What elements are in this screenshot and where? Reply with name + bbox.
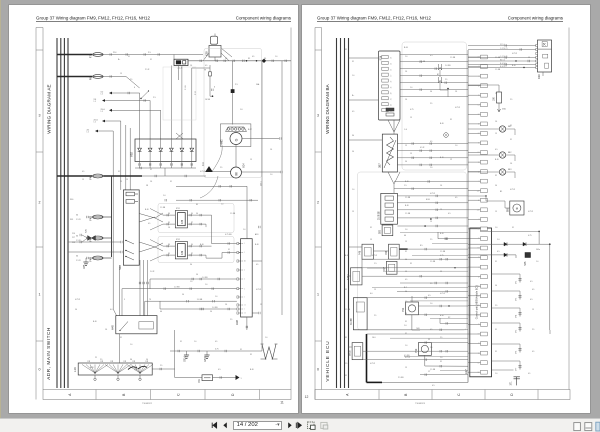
svg-text:1.0: 1.0 — [430, 347, 432, 349]
svg-text:54: 54 — [146, 359, 148, 361]
svg-text:F66: F66 — [88, 75, 92, 80]
sensor drops right column — [492, 273, 521, 275]
svg-text:F97: F97 — [383, 266, 386, 271]
svg-text:C4: C4 — [510, 163, 512, 165]
nav prev page button — [223, 422, 227, 428]
svg-text:R30: R30 — [537, 74, 541, 79]
left margin ruler — [35, 28, 37, 400]
svg-text:22: 22 — [391, 81, 393, 83]
feeder wire F66 — [57, 76, 92, 78]
switch contact mesh — [141, 92, 148, 99]
svg-text:F76: F76 — [88, 53, 92, 58]
svg-text:15: 15 — [405, 271, 407, 273]
indicator lamps — [499, 126, 505, 132]
solenoid Y62 — [406, 302, 419, 315]
svg-text:1.0: 1.0 — [270, 174, 272, 176]
svg-text:0.5: 0.5 — [256, 264, 258, 266]
svg-text:X1: X1 — [345, 49, 347, 51]
svg-text:19: 19 — [478, 143, 480, 145]
svg-text:54: 54 — [264, 58, 267, 60]
svg-text:30: 30 — [76, 236, 78, 238]
snapshot tool icon — [308, 422, 315, 429]
right margin line — [290, 28, 292, 390]
svg-text:31: 31 — [150, 59, 152, 61]
svg-text:54: 54 — [196, 213, 198, 215]
wire crossover above V92 — [176, 133, 183, 139]
svg-text:3: 3 — [317, 114, 319, 118]
svg-text:30: 30 — [76, 215, 78, 217]
svg-text:C4: C4 — [150, 181, 152, 183]
svg-text:0.5: 0.5 — [532, 351, 534, 353]
svg-text:54: 54 — [405, 291, 407, 293]
svg-text:C: C — [457, 393, 461, 396]
corners down into A45 — [121, 289, 123, 316]
svg-text:B-16: B-16 — [440, 157, 444, 159]
svg-text:2.5: 2.5 — [230, 319, 232, 321]
svg-text:D: D — [231, 393, 235, 396]
svg-text:25: 25 — [391, 86, 393, 88]
svg-text:1: 1 — [317, 293, 319, 297]
svg-text:B-34 0.5: B-34 0.5 — [500, 66, 506, 68]
svg-text:31: 31 — [118, 171, 120, 173]
svg-text:372: 372 — [516, 281, 518, 284]
svg-text:12: 12 — [478, 124, 480, 126]
nav first page button — [212, 423, 216, 428]
svg-text:Component wiring diagrams: Component wiring diagrams — [508, 16, 564, 21]
svg-text:30: 30 — [191, 244, 193, 246]
svg-text:1: 1 — [244, 297, 245, 299]
svg-text:2.5: 2.5 — [160, 365, 162, 367]
svg-text:3108/2B: 3108/2B — [378, 211, 380, 220]
svg-text:0.5: 0.5 — [430, 55, 433, 57]
relay F48 — [362, 244, 374, 259]
svg-text:1.5 SB: 1.5 SB — [405, 213, 411, 215]
svg-text:C7: C7 — [478, 133, 480, 135]
svg-text:2.5: 2.5 — [100, 359, 102, 361]
svg-text:2.5: 2.5 — [510, 99, 512, 101]
motor module 8B6 — [510, 201, 524, 215]
svg-text:53A: 53A — [502, 108, 506, 111]
svg-text:15: 15 — [495, 211, 497, 213]
box 5B5 — [382, 225, 393, 236]
svg-text:0.75 R: 0.75 R — [440, 293, 446, 295]
svg-text:545: 545 — [524, 261, 527, 266]
svg-text:AD1: AD1 — [255, 233, 259, 236]
svg-text:6.0: 6.0 — [110, 309, 113, 311]
svg-text:3B7: 3B7 — [378, 163, 382, 168]
svg-text:215 A: 215 A — [94, 119, 99, 122]
svg-text:WIRING DIAGRAM AE: WIRING DIAGRAM AE — [47, 84, 52, 134]
resistor 186 — [498, 85, 500, 92]
svg-text:1.0: 1.0 — [495, 227, 497, 229]
svg-text:373: 373 — [516, 298, 518, 301]
svg-text:31: 31 — [345, 289, 347, 291]
wire-end arrows mesh column — [109, 92, 112, 95]
svg-text:16: 16 — [391, 69, 393, 71]
svg-text:B4: B4 — [478, 105, 480, 107]
svg-text:Group 37 Wiring diagram FM9, F: Group 37 Wiring diagram FM9, FM12, FH12,… — [36, 16, 150, 21]
svg-text:B-16: B-16 — [440, 315, 444, 317]
svg-text:8B0B: 8B0B — [350, 350, 352, 356]
svg-text:19: 19 — [478, 286, 480, 288]
relay F97 — [386, 261, 397, 274]
svg-text:150: 150 — [101, 92, 104, 94]
wire bus to right margin — [188, 60, 291, 62]
svg-text:1.5: 1.5 — [94, 101, 96, 103]
svg-text:A2: A2 — [244, 260, 246, 263]
svg-text:12: 12 — [478, 343, 480, 345]
svg-text:2.5 R: 2.5 R — [145, 69, 150, 71]
svg-text:G81A: G81A — [183, 356, 186, 362]
relay F98 — [389, 244, 400, 259]
svg-text:B-34 0.5: B-34 0.5 — [500, 63, 506, 65]
svg-text:1.0: 1.0 — [352, 75, 354, 77]
svg-text:12: 12 — [478, 200, 480, 202]
svg-text:2-1-B: 2-1-B — [185, 85, 187, 90]
svg-text:Control unit, ABS/Vehicle ECU: Control unit, ABS/Vehicle ECU — [475, 285, 479, 320]
diode group 545 — [468, 243, 550, 245]
svg-text:31: 31 — [410, 263, 412, 265]
svg-text:2.5: 2.5 — [495, 305, 497, 307]
svg-text:0.75 R: 0.75 R — [510, 189, 516, 191]
svg-text:54: 54 — [405, 161, 407, 163]
svg-text:377: 377 — [516, 368, 518, 371]
diode assembly V92 — [135, 139, 196, 162]
svg-text:15: 15 — [260, 304, 262, 306]
svg-text:85: 85 — [168, 222, 170, 224]
svg-text:1.0: 1.0 — [194, 341, 196, 343]
svg-text:C7: C7 — [428, 371, 430, 373]
svg-text:0.75 SB: 0.75 SB — [225, 234, 232, 236]
svg-text:54: 54 — [182, 294, 184, 296]
ECU bus line — [467, 50, 469, 382]
svg-text:A12: A12 — [477, 209, 480, 212]
svg-text:1.0: 1.0 — [190, 281, 192, 283]
svg-text:0.75: 0.75 — [215, 349, 219, 351]
svg-text:B-16: B-16 — [440, 123, 444, 125]
svg-text:0.5: 0.5 — [495, 149, 498, 151]
right margin ruler — [314, 28, 316, 400]
svg-text:217: 217 — [72, 237, 75, 239]
svg-text:1.5: 1.5 — [101, 111, 103, 113]
svg-text:15: 15 — [495, 93, 497, 95]
svg-text:12: 12 — [478, 171, 480, 173]
svg-text:B-16: B-16 — [145, 209, 149, 211]
svg-text:3: 3 — [39, 114, 41, 118]
svg-text:6.0: 6.0 — [370, 293, 373, 295]
svg-text:31: 31 — [478, 353, 480, 355]
svg-text:K28: K28 — [205, 51, 209, 56]
svg-text:216: 216 — [87, 130, 90, 132]
svg-text:6: 6 — [134, 87, 135, 89]
svg-text:1: 1 — [241, 378, 242, 380]
drop to alternator — [232, 61, 234, 90]
svg-text:1.5: 1.5 — [374, 263, 377, 265]
long vertical wires — [261, 61, 263, 344]
svg-text:31: 31 — [250, 354, 252, 356]
svg-text:31: 31 — [478, 238, 480, 240]
svg-text:87: 87 — [191, 222, 193, 224]
svg-text:2.5: 2.5 — [130, 79, 132, 81]
svg-text:2.5: 2.5 — [374, 315, 376, 317]
svg-text:87: 87 — [191, 253, 193, 255]
svg-text:0.75 R: 0.75 R — [256, 289, 262, 291]
svg-text:54: 54 — [405, 259, 407, 261]
svg-text:2.5: 2.5 — [532, 329, 534, 331]
svg-text:0.5: 0.5 — [148, 223, 150, 225]
svg-text:2: 2 — [317, 201, 319, 205]
svg-text:C4: C4 — [190, 65, 192, 67]
svg-text:2.5: 2.5 — [430, 239, 432, 241]
svg-text:11: 11 — [280, 401, 284, 405]
svg-text:12: 12 — [244, 313, 246, 315]
svg-text:10: 10 — [391, 57, 393, 59]
svg-text:2.5: 2.5 — [345, 363, 347, 365]
svg-text:Y60: Y60 — [415, 348, 418, 353]
svg-text:1.0: 1.0 — [497, 239, 500, 241]
connector 371 — [514, 377, 520, 386]
S24 fan — [388, 120, 400, 132]
svg-text:0.75 R: 0.75 R — [512, 53, 518, 55]
svg-text:0.5: 0.5 — [455, 197, 457, 199]
svg-text:0.5: 0.5 — [430, 329, 432, 331]
extra wires lower right page — [400, 232, 468, 234]
svg-text:214: 214 — [113, 52, 117, 54]
control unit A17 — [470, 228, 492, 377]
svg-text:B-16: B-16 — [200, 244, 204, 246]
svg-text:D2: D2 — [478, 362, 480, 364]
svg-text:15: 15 — [410, 117, 412, 119]
svg-text:1.5 SB: 1.5 SB — [405, 197, 411, 199]
svg-text:1.5 SB: 1.5 SB — [495, 57, 501, 59]
svg-text:15: 15 — [405, 367, 407, 369]
svg-text:0.75: 0.75 — [440, 255, 444, 257]
svg-text:0.5 R: 0.5 R — [420, 147, 425, 149]
solenoid Y60 — [418, 343, 431, 356]
svg-text:1: 1 — [39, 293, 41, 297]
connector 3108B — [353, 298, 367, 330]
svg-text:8751: 8751 — [176, 208, 180, 210]
left page sheet — [36, 16, 292, 406]
svg-text:C7: C7 — [478, 315, 480, 317]
svg-text:1: 1 — [244, 309, 245, 311]
svg-text:1.0: 1.0 — [405, 56, 407, 58]
svg-text:1.0: 1.0 — [440, 357, 442, 359]
svg-text:M: M — [235, 173, 239, 176]
connector 3108/2B — [381, 193, 398, 224]
svg-text:1.5 SB: 1.5 SB — [160, 207, 166, 209]
svg-text:5: 5 — [124, 299, 125, 301]
svg-text:F91: F91 — [198, 378, 201, 383]
svg-text:1.5 SB: 1.5 SB — [430, 261, 436, 263]
lamp module L19 — [78, 363, 152, 375]
svg-text:31: 31 — [478, 162, 480, 164]
svg-text:1.0: 1.0 — [405, 345, 407, 347]
svg-text:1.0: 1.0 — [352, 189, 354, 191]
svg-text:54: 54 — [495, 185, 497, 187]
texture ticks left page — [200, 60, 202, 62]
svg-text:1.0: 1.0 — [205, 284, 207, 286]
svg-text:31: 31 — [150, 169, 152, 171]
svg-text:F42: F42 — [88, 216, 92, 221]
svg-text:1.5 SB: 1.5 SB — [430, 369, 436, 371]
svg-text:31: 31 — [180, 341, 182, 343]
svg-text:EG3: EG3 — [426, 199, 430, 201]
svg-text:1.5 SB: 1.5 SB — [345, 309, 351, 311]
svg-text:0.5: 0.5 — [215, 341, 217, 343]
harness bundle right page — [336, 38, 338, 388]
svg-text:C4: C4 — [405, 71, 407, 73]
svg-text:15: 15 — [528, 57, 530, 59]
fuse F47 — [88, 236, 103, 242]
svg-text:1.0: 1.0 — [536, 261, 538, 263]
svg-text:A38: A38 — [235, 320, 239, 325]
svg-text:15: 15 — [430, 221, 432, 223]
svg-text:1.0: 1.0 — [130, 344, 132, 346]
svg-text:0.75 R: 0.75 R — [75, 299, 81, 301]
svg-text:31: 31 — [510, 139, 512, 141]
svg-text:31: 31 — [370, 227, 372, 229]
svg-text:C-12 0.75: C-12 0.75 — [500, 48, 507, 50]
wires lower to bus — [438, 238, 468, 240]
svg-text:T3008923: T3008923 — [415, 403, 426, 405]
svg-text:B-16: B-16 — [405, 205, 409, 207]
svg-text:0.5: 0.5 — [528, 373, 530, 375]
svg-text:15: 15 — [250, 159, 252, 161]
control unit A45 — [116, 316, 157, 334]
svg-text:B+: B+ — [118, 59, 120, 61]
wires S24 to bus — [400, 54, 468, 56]
svg-text:2.5: 2.5 — [430, 283, 432, 285]
fuse F42 — [88, 215, 103, 221]
svg-text:Y62: Y62 — [402, 307, 405, 312]
svg-text:44: 44 — [404, 235, 406, 237]
svg-text:12: 12 — [478, 257, 480, 259]
svg-text:371: 371 — [510, 381, 513, 386]
svg-text:1.0: 1.0 — [410, 87, 412, 89]
svg-text:1.5 SB: 1.5 SB — [450, 57, 456, 59]
svg-text:15: 15 — [370, 239, 372, 241]
svg-text:X25: X25 — [86, 228, 88, 233]
svg-text:15: 15 — [352, 211, 354, 213]
svg-text:1.0: 1.0 — [430, 303, 432, 305]
svg-text:375: 375 — [516, 330, 518, 333]
svg-text:1.0: 1.0 — [215, 296, 217, 298]
svg-text:1.0: 1.0 — [243, 229, 245, 231]
svg-text:1.0: 1.0 — [455, 145, 457, 147]
svg-text:C4: C4 — [455, 91, 457, 93]
svg-text:1.0 SB: 1.0 SB — [212, 307, 218, 309]
svg-text:B7: B7 — [437, 74, 439, 76]
svg-text:B-16: B-16 — [405, 181, 409, 183]
svg-text:0: 0 — [317, 368, 319, 372]
svg-text:1.0 SB: 1.0 SB — [174, 287, 180, 289]
svg-text:1.5: 1.5 — [101, 94, 103, 96]
svg-text:12: 12 — [450, 159, 452, 161]
nav next page button — [288, 422, 292, 428]
collector under V92 — [135, 167, 196, 169]
svg-text:4: 4 — [244, 270, 245, 272]
resistor box R30 — [538, 40, 552, 72]
svg-text:2.5: 2.5 — [445, 79, 447, 81]
svg-text:1.5 SB: 1.5 SB — [230, 213, 236, 215]
light duct outlines — [204, 49, 262, 178]
svg-text:G: G — [235, 138, 239, 141]
misc verticals — [393, 132, 395, 134]
svg-text:31: 31 — [478, 324, 480, 326]
svg-text:15: 15 — [405, 241, 407, 243]
svg-text:15: 15 — [374, 289, 376, 291]
svg-text:19: 19 — [478, 305, 480, 307]
svg-text:79: 79 — [149, 299, 151, 301]
texture ticks right page — [420, 61, 422, 63]
svg-text:15: 15 — [120, 181, 122, 183]
svg-text:C7: C7 — [478, 334, 480, 336]
svg-text:F48: F48 — [359, 250, 362, 255]
svg-text:C7: C7 — [478, 114, 480, 116]
svg-text:0.5: 0.5 — [428, 295, 431, 297]
battery junction box J — [174, 59, 188, 65]
svg-text:0.75 R: 0.75 R — [528, 211, 534, 213]
svg-text:1.0 SB: 1.0 SB — [197, 299, 203, 301]
svg-text:30: 30 — [191, 213, 193, 215]
right page sheet — [305, 16, 570, 406]
svg-text:0.5: 0.5 — [82, 171, 84, 173]
svg-text:1.5 R: 1.5 R — [76, 260, 81, 262]
svg-text:B: B — [122, 393, 126, 396]
svg-text:13: 13 — [391, 63, 393, 65]
relay wire rows and fans — [163, 214, 175, 216]
ECU box A38 — [241, 239, 253, 317]
svg-text:1.6: 1.6 — [240, 109, 243, 111]
svg-text:C: C — [177, 393, 181, 396]
wires into A38 — [150, 278, 237, 280]
svg-text:0.5: 0.5 — [532, 289, 534, 291]
svg-text:0.75 R: 0.75 R — [455, 107, 461, 109]
svg-text:31: 31 — [170, 181, 172, 183]
svg-text:1.5 SB: 1.5 SB — [420, 61, 426, 63]
resistor unit 3B7 — [382, 134, 397, 172]
starter motor M24 — [231, 167, 242, 178]
svg-text:44: 44 — [160, 311, 162, 313]
svg-text:D2: D2 — [478, 372, 480, 374]
svg-text:6: 6 — [214, 87, 215, 89]
svg-text:31: 31 — [345, 337, 347, 339]
svg-text:0.75 R: 0.75 R — [405, 357, 411, 359]
svg-text:30: 30 — [76, 256, 78, 258]
svg-text:0.75: 0.75 — [410, 109, 414, 111]
svg-text:A12: A12 — [477, 189, 480, 192]
svg-text:WIRING DIAGRAM BA: WIRING DIAGRAM BA — [325, 83, 330, 134]
svg-text:V92: V92 — [130, 152, 134, 157]
svg-text:C-12 0.75: C-12 0.75 — [500, 56, 507, 58]
svg-text:31: 31 — [510, 125, 512, 127]
svg-text:30: 30 — [352, 135, 354, 137]
svg-text:31: 31 — [405, 251, 407, 253]
svg-text:31: 31 — [240, 349, 242, 351]
ground G55 — [83, 258, 88, 269]
svg-text:55: 55 — [428, 339, 430, 341]
svg-text:86: 86 — [168, 213, 170, 215]
svg-text:186: 186 — [494, 96, 496, 101]
svg-text:36: 36 — [130, 359, 132, 361]
clipboard icon disabled — [321, 422, 327, 428]
svg-text:1.5: 1.5 — [87, 132, 89, 134]
svg-text:D2: D2 — [478, 229, 480, 231]
svg-text:0.5: 0.5 — [530, 281, 533, 283]
fuse F66 — [88, 75, 103, 81]
bottom band left page — [43, 390, 291, 400]
